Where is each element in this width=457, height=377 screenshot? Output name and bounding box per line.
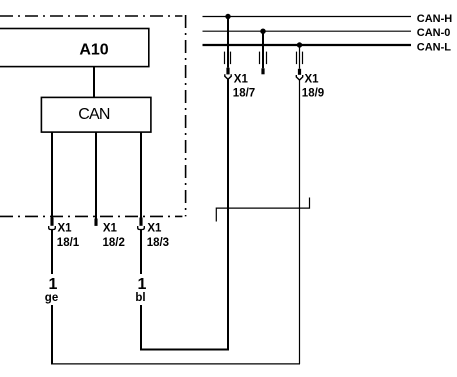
svg-text:18/9: 18/9 bbox=[302, 88, 324, 100]
svg-text:X1: X1 bbox=[58, 223, 73, 235]
svg-text:18/2: 18/2 bbox=[103, 237, 125, 249]
svg-text:CAN: CAN bbox=[78, 106, 110, 123]
svg-text:ge: ge bbox=[45, 292, 58, 304]
svg-text:1: 1 bbox=[138, 276, 147, 293]
svg-text:18/1: 18/1 bbox=[57, 237, 80, 249]
svg-text:CAN-H: CAN-H bbox=[417, 13, 452, 25]
svg-text:X1: X1 bbox=[103, 223, 118, 235]
svg-text:X1: X1 bbox=[305, 73, 320, 85]
svg-text:X1: X1 bbox=[147, 223, 162, 235]
svg-text:18/3: 18/3 bbox=[147, 237, 169, 249]
svg-text:X1: X1 bbox=[234, 73, 249, 85]
svg-text:CAN-0: CAN-0 bbox=[417, 27, 451, 39]
svg-text:CAN-L: CAN-L bbox=[417, 41, 451, 53]
svg-text:18/7: 18/7 bbox=[233, 88, 255, 100]
svg-text:1: 1 bbox=[49, 276, 58, 293]
svg-text:bl: bl bbox=[135, 292, 145, 304]
svg-text:A10: A10 bbox=[79, 42, 108, 59]
